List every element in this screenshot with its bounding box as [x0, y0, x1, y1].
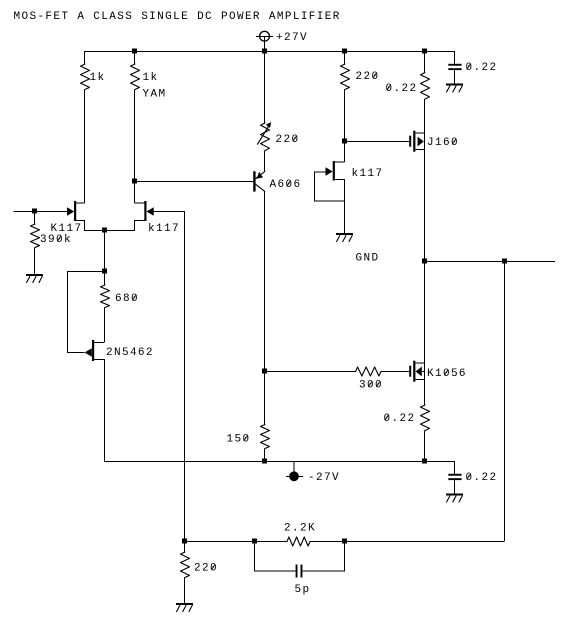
- wire 680 to 2N5462 drain: [104, 308, 106, 343]
- svg-text:150: 150: [227, 434, 251, 446]
- junction negRail colE: [422, 459, 427, 464]
- wire 390k to ground: [34, 248, 36, 275]
- resistor 0.22 top: [421, 73, 430, 100]
- wire 0.22 top: [424, 51, 426, 73]
- wire bottom rail left: [185, 541, 255, 543]
- transistor k117 mid gate arrow: [326, 167, 333, 175]
- junction input gate: [32, 209, 37, 214]
- wire -27V cross: [286, 476, 303, 478]
- wire colB down to base node: [134, 90, 136, 182]
- wire K1056 drain lead: [415, 362, 425, 364]
- resistor 680: [101, 285, 110, 308]
- resistor 220 bottom: [181, 552, 190, 577]
- wire 2N5462 gate loop: [68, 272, 106, 353]
- wire 300 to K1056 gate: [381, 371, 409, 373]
- wire bottom rail right: [345, 541, 505, 543]
- ground 390k ticks: [27, 277, 43, 283]
- junction 0.22 top: [422, 49, 427, 54]
- wire base to A606: [135, 181, 254, 183]
- wire out to K1056 drain: [424, 261, 426, 363]
- ground bottom cap: [446, 494, 463, 496]
- wire K1056 bulk vertical: [424, 363, 426, 380]
- wire k117 mid gate loop: [315, 172, 345, 202]
- resistor 1k right: [131, 64, 140, 89]
- svg-text:220: 220: [276, 134, 300, 146]
- resistor 390k: [31, 224, 40, 248]
- power terminal +27V: [260, 31, 270, 41]
- trimmer 220 zigzag: [261, 123, 270, 150]
- wire 220 bottom top: [184, 541, 186, 552]
- wire 150 to negRail: [264, 449, 266, 462]
- wire 2N5462 source lead: [94, 360, 104, 462]
- resistor 300: [356, 367, 381, 376]
- wire 0.22 to J160 drain: [424, 99, 426, 133]
- junction tail 680: [102, 269, 107, 274]
- wire k117 mid drain lead: [335, 161, 345, 163]
- wire output rail: [425, 261, 556, 263]
- wire bottom cap lead: [425, 462, 455, 474]
- junction diff sources: [102, 228, 107, 233]
- ground 220 bottom: [176, 603, 193, 605]
- svg-text:A606: A606: [270, 179, 302, 191]
- wire feedback column: [184, 211, 186, 541]
- wire colA down to K117 drain: [84, 90, 86, 204]
- transistor A606 collector: [256, 184, 265, 191]
- ground k117 mid ticks: [337, 236, 353, 242]
- wire K1056 source down: [424, 380, 426, 406]
- svg-text:220: 220: [194, 563, 218, 575]
- wire 220 top: [344, 51, 346, 64]
- transistor k117 right bar: [144, 201, 146, 221]
- resistor 150: [261, 425, 270, 449]
- wire top cap to ground: [454, 70, 456, 83]
- transistor A606 emitter arrow: [256, 172, 263, 179]
- capacitor 5p plate2: [301, 565, 303, 578]
- transistor J160 channel bar: [413, 131, 415, 152]
- transistor k117 right gate arrow: [147, 207, 154, 215]
- wire K1056 source lead: [415, 379, 425, 381]
- wire J160 drain lead: [415, 132, 425, 134]
- wire A606 collector down: [264, 191, 266, 371]
- wire trimmer top: [264, 51, 266, 123]
- junction output colG: [502, 259, 507, 264]
- transistor A606 bar: [253, 171, 255, 191]
- ground 220 bottom ticks: [177, 606, 193, 612]
- wire k117 mid gate: [315, 171, 326, 173]
- svg-text:300: 300: [359, 380, 383, 392]
- junction cap branch right: [342, 539, 347, 544]
- capacitor 0.22 bottom plate2: [448, 478, 461, 480]
- ground top cap: [446, 84, 463, 86]
- capacitor 0.22 bottom plate1: [448, 474, 461, 476]
- wire k117 mid source to ground: [344, 201, 346, 234]
- svg-text:5p: 5p: [295, 584, 311, 596]
- capacitor 5p plate1: [296, 565, 298, 578]
- wire K1056 bulk stub: [422, 371, 425, 373]
- transistor 2N5462 bar: [92, 340, 94, 361]
- ground top cap ticks: [447, 86, 463, 92]
- wire 220 to J160 gate node: [344, 90, 346, 142]
- wire 680 top: [104, 271, 106, 285]
- junction base node: [132, 179, 137, 184]
- transistor A606 emitter: [256, 172, 265, 179]
- resistor 2.2K: [287, 537, 310, 546]
- transistor k117 mid bar: [333, 161, 335, 181]
- svg-text:+27V: +27V: [276, 32, 308, 44]
- wire -27V rail: [105, 461, 425, 463]
- transistor K117 left bar: [74, 201, 76, 221]
- svg-text:2.2K: 2.2K: [284, 523, 316, 535]
- wire colB base node to k117 drain: [134, 181, 136, 203]
- svg-text:J160: J160: [427, 137, 459, 149]
- wire feedback up: [504, 261, 506, 541]
- wire k117 mid source lead: [335, 180, 345, 202]
- wire 390k top: [34, 211, 36, 224]
- trimmer 220 arrow shaft: [258, 125, 270, 144]
- wire bottom cap to ground: [454, 480, 456, 493]
- capacitor 0.22 top plate1: [448, 64, 461, 66]
- ground bottom cap ticks: [447, 496, 463, 502]
- wire J160 gate: [345, 141, 410, 143]
- svg-text:GND: GND: [356, 253, 380, 265]
- svg-text:2N5462: 2N5462: [106, 347, 154, 359]
- svg-text:1k: 1k: [90, 72, 106, 84]
- transistor J160 gate bar: [409, 136, 411, 147]
- ground 390k: [26, 274, 43, 276]
- wire 2.2K to junction: [310, 541, 345, 543]
- wire k117 right drain lead: [135, 202, 145, 204]
- wire colC to 150: [264, 371, 266, 425]
- wire to 2.2K: [255, 541, 288, 543]
- wire K117 source lead: [76, 221, 105, 231]
- ground k117 mid: [336, 233, 353, 235]
- wire J160 source lead: [415, 149, 425, 151]
- resistor 220 top: [341, 64, 350, 89]
- wire +27V cross: [256, 36, 273, 51]
- transistor K1056 channel bar: [413, 361, 415, 382]
- power terminal -27V: [289, 471, 299, 481]
- transistor K117 left gate arrow: [67, 207, 74, 215]
- wire 5p branch left: [255, 541, 296, 571]
- wire tail down: [104, 230, 106, 271]
- junction J160 gate node: [342, 139, 347, 144]
- wire input to K117 gate: [14, 211, 68, 213]
- svg-text:220: 220: [356, 71, 380, 83]
- svg-text:-27V: -27V: [308, 472, 340, 484]
- junction cap branch left: [252, 539, 257, 544]
- resistor 0.22 bottom: [421, 405, 430, 430]
- wire 2N5462 drain lead: [94, 342, 104, 344]
- svg-text:1k: 1k: [143, 72, 159, 84]
- wire VAS to 300: [265, 371, 356, 373]
- svg-text:MOS-FET A CLASS SINGLE DC POWE: MOS-FET A CLASS SINGLE DC POWER AMPLIFIE…: [14, 11, 341, 23]
- wire 0.22 to negRail: [424, 431, 426, 462]
- transistor K1056 gate bar: [409, 366, 411, 377]
- junction 150 negRail: [262, 459, 267, 464]
- svg-text:390k: 390k: [40, 234, 72, 246]
- wire k117 right gate: [154, 211, 185, 213]
- transistor 2N5462 gate arrow: [85, 348, 92, 356]
- junction 220 top: [342, 49, 347, 54]
- resistor 1k left: [81, 64, 90, 89]
- svg-text:680: 680: [115, 293, 139, 305]
- svg-text:YAM: YAM: [143, 89, 167, 101]
- junction VAS node: [262, 369, 267, 374]
- wire trimmer to emitter: [264, 151, 266, 172]
- svg-text:k117: k117: [352, 168, 384, 180]
- wire k117 right source lead: [104, 221, 144, 231]
- wire colD gate node to k117 drain: [344, 141, 346, 162]
- wire -27V stub: [293, 461, 295, 472]
- wire 5p branch right: [302, 541, 344, 571]
- svg-text:K1056: K1056: [427, 368, 467, 380]
- svg-text:k117: k117: [148, 223, 180, 235]
- wire 1k left top: [84, 51, 86, 64]
- junction +27V bus: [262, 49, 267, 54]
- junction output colE: [422, 259, 427, 264]
- transistor J160 arrow: [418, 137, 424, 147]
- wire J160 bulk vertical: [424, 133, 426, 150]
- capacitor 0.22 top plate2: [448, 68, 461, 70]
- wire 1k right top: [134, 51, 136, 64]
- wire top cap lead: [425, 52, 455, 64]
- junction 1k right top: [132, 49, 137, 54]
- transistor K1056 arrow: [416, 367, 422, 377]
- trimmer 220 arrow head: [266, 122, 271, 128]
- junction feedback bottom: [182, 539, 187, 544]
- wire top +27V bus: [85, 51, 455, 53]
- wire 220 bottom to ground: [184, 578, 186, 604]
- wire K117 drain lead: [76, 202, 84, 204]
- wire J160 source to out: [424, 150, 426, 262]
